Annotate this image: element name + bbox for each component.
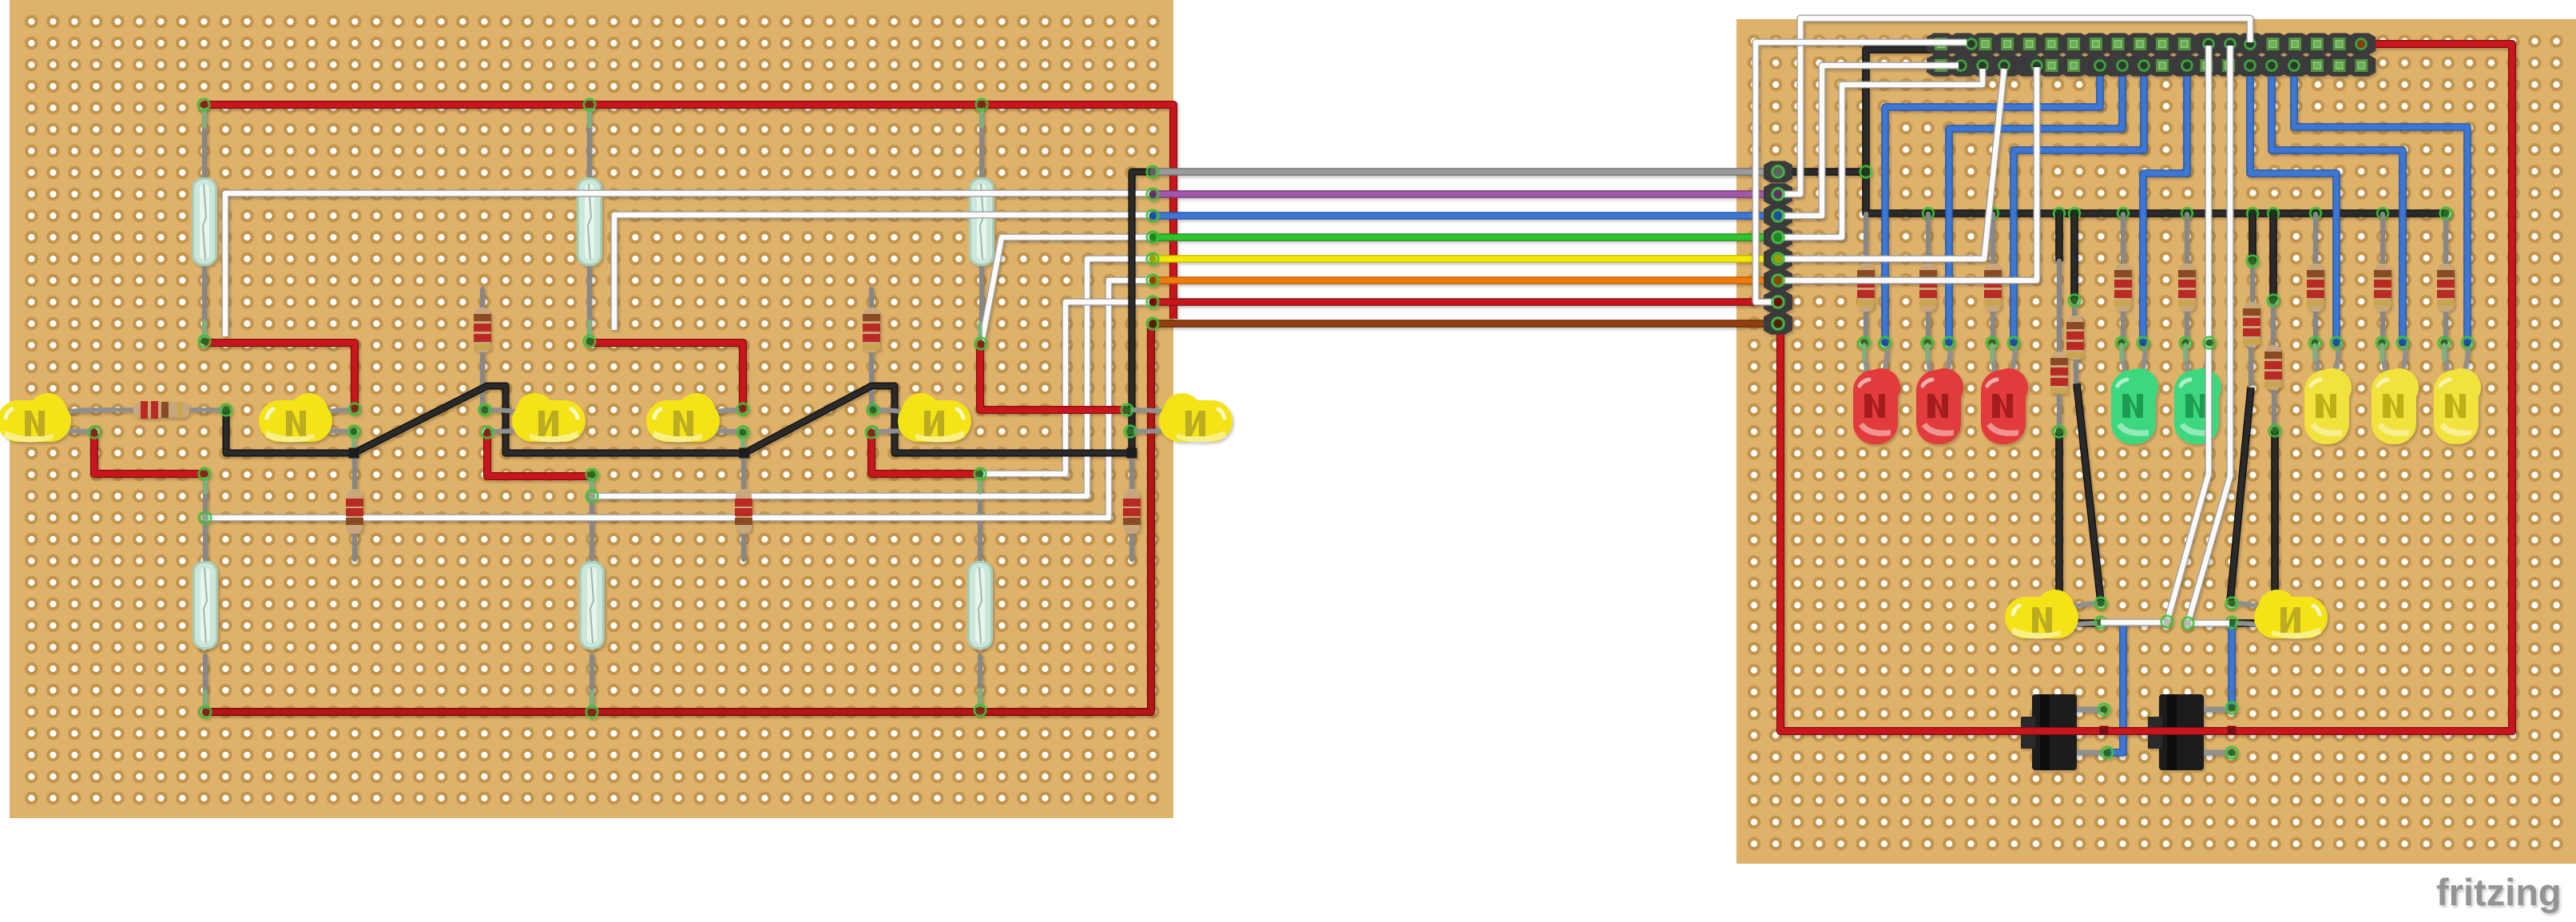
node ribbon gray left [1147,166,1158,177]
green stub LED col 2334 [1862,345,1867,360]
LED green 2 [2174,344,2221,444]
node LED yel3R [2462,337,2473,348]
pin J2 top 1 [1935,38,1947,50]
wire white green-pin [1781,69,1983,237]
pin J2 bottom used at 2550 [2032,61,2042,71]
node LED red1R [1879,337,1891,348]
node LED red1L [1859,337,1870,348]
LED D2 [259,393,354,443]
node red wire at header pin [2357,40,2365,48]
pin J2 top 12 [2178,38,2191,50]
node jumper4 low [2269,425,2280,436]
LED yellow 2 [2372,344,2419,444]
node rail S2 [584,99,595,110]
pin J2 bottom used at 2455 [1956,61,1967,71]
node side1 bottom [2095,617,2106,628]
wire ribbon brown [1153,320,1778,328]
green stub LED col 2494 [1990,345,1995,360]
resistor R4 [346,489,363,534]
green leg S6 [978,474,982,710]
wire black header link [1778,50,1953,172]
reed switch S5 [579,561,605,650]
pin J2 bottom 20 [2355,59,2368,72]
node side2 top [2226,598,2237,609]
wire red feed LED4 [589,343,743,407]
pin J2 bottom used at 2657 [2118,61,2128,71]
pin J1 purple [1772,189,1784,200]
node ribbon blue left [1147,210,1158,221]
pin J2 bottom 11 [2156,59,2169,72]
lead resistor R4 [352,454,357,559]
wire ribbon green [1153,233,1778,241]
pin J2 bottom used at 2817 [2245,61,2256,71]
wire red top rail [204,105,1173,319]
wire white D [592,259,1151,496]
resistor RR4 [2114,264,2132,312]
lead resistor RR5 [2185,214,2187,344]
pin J2 top 10 [2133,38,2146,50]
pin J2 bottom used at 2509 [1999,61,2010,71]
LED red 1 [1853,344,1900,444]
pin J2 bottom 18 [2311,59,2324,72]
node jumper4 mid [2268,295,2279,306]
resistor RR1 [1857,264,1875,312]
lead resistor RR2 [1927,214,1928,344]
resistor R6 [1123,489,1141,534]
wire black long 1 [2059,431,2098,623]
resistor R3 [863,308,880,352]
node LED yel2L [2376,337,2387,348]
LED red 3 [1981,344,2028,444]
node LED red3L [1987,337,1998,348]
pin J2 bottom 14 [2222,59,2235,72]
pin J2 bottom 6 [2046,59,2058,72]
green leg LED2 [351,431,356,453]
header J1 8-pin vertical [1764,161,1792,182]
pin J2 bottom used at 2738 [2182,61,2193,71]
wire ribbon gray [1153,168,1778,176]
node side2 bottom [2226,617,2237,628]
resistor RR7 [2374,264,2391,312]
wire blue 7 [2294,66,2467,344]
pin J2 bottom used at 2629 [2095,61,2106,71]
node S4 top [199,468,210,479]
wire white B [614,215,1151,330]
LED yellow side 1 [2005,590,2101,639]
LED D4 [646,393,743,443]
node white diag left cap [2161,616,2173,627]
node jumper2 mid [2069,295,2080,306]
junction black 1 [349,448,359,459]
node LED4 cathode [737,427,748,438]
pin J2 bottom 13 [2200,59,2213,72]
pin J2 top 4 [2001,38,2014,50]
wire black jumper 1 [2055,214,2063,261]
wire ribbon blue [1153,212,1778,220]
node LED grn1L [2116,337,2127,348]
header J2 2x20 [1927,33,1955,54]
node bus 2414 [1923,208,1934,219]
LED D3 [485,393,585,443]
pin J1 red [1772,296,1784,308]
right perfboard [1737,19,2576,864]
pin J2 top used at 2468 [1967,39,1977,50]
pin J1 gray [1772,166,1784,177]
green leg S2 top [587,107,592,341]
node LED red3R [2008,337,2019,348]
pin J2 top 19 [2333,38,2346,50]
resistor R1 [114,401,226,419]
green leg S3 top [980,107,982,344]
resistor R2 [474,308,491,352]
LED red 2 [1916,344,1963,444]
node LED2 cathode [348,426,359,437]
reed switch S6 [967,561,993,650]
reed switch S4 [193,561,218,650]
node Q2 bottom [2226,747,2237,758]
resistor RJ2 [2066,316,2084,360]
node bus 2899 [2310,208,2321,219]
node bus 2495 [1987,208,1998,219]
node bus 2846 [2268,208,2279,219]
wire blue 2 [1949,66,2122,342]
wire lead glass bottom 2 [589,474,594,712]
resistor RR3 [1984,264,2002,312]
node S5 top [586,469,597,480]
resistor RR2 [1919,264,1937,312]
LED green 1 [2111,344,2158,444]
pin J2 top 7 [2067,38,2080,50]
pin J2 top used at 2817 [2245,39,2256,50]
reed switch S2 [577,177,602,266]
lead resistor RR7 [2382,214,2383,344]
lead resistor R6 [1129,454,1134,559]
green leg S4 [203,474,208,712]
wire white purple-pin [1781,18,2250,194]
wire white seg bottom left [2101,618,2166,626]
wire black jumper 3 [2249,214,2256,261]
wire white yellow-pin [1782,69,2004,259]
wire lead glass top 3 [979,107,984,340]
node LED6 anode [1121,404,1133,415]
resistor RR8 [2437,264,2455,312]
svg-text:fritzing: fritzing [2436,871,2562,913]
wire black jumper 4 [2269,214,2277,300]
lead resistor R5 [741,454,746,559]
junction black 2 [740,448,750,459]
junction black 3 [1127,448,1137,459]
green leg S5 [589,476,594,712]
node R1 right [220,404,232,415]
node black bus corner [1860,166,1871,177]
wire blue 5 [2250,66,2336,344]
node ribbon red left [1147,296,1158,308]
node bus end [2440,208,2451,219]
wire red bottom rail [205,325,1151,712]
wire red LED3 to S5 [487,433,589,476]
lead jumper 2 [2074,300,2076,382]
wire red rail over transistors [1981,727,2316,735]
green stub LED col 2982 [2380,345,2384,360]
node rail bottom 2 [586,706,597,717]
LED yellow 3 [2434,344,2481,444]
pin J1 yellow [1772,253,1784,264]
wire lead glass top 1 [202,107,207,340]
node LED yel3L [2439,337,2450,348]
node S1 bottom [199,336,210,347]
pin J2 top 11 [2156,38,2169,50]
lead resistor RR4 [2122,214,2123,344]
wire white F [982,302,1151,474]
wire ribbon yellow [1153,255,1778,263]
node LED1 cathode [89,427,100,438]
green stub LED col 2736 [2183,345,2188,360]
pin J2 bottom used at 2844 [2267,61,2277,71]
pin J2 bottom 19 [2333,59,2346,72]
node rail bottom 1 [200,706,211,717]
wire white long left [2167,46,2209,622]
node LED grn2L [2180,337,2191,348]
node ribbon green left [1147,232,1158,243]
LED yellow side 2 [2232,590,2328,639]
green leg S1 top [202,107,207,341]
wire blue trans1 [2107,622,2123,753]
pin J2 top 3 [1979,38,1991,50]
resistor RJ4 [2264,345,2282,390]
node bus 2597 [2069,208,2080,219]
node S4 white [200,512,211,523]
node rail S3 [976,99,987,110]
wire lead glass bottom 3 [978,474,982,712]
node LED2 anode [349,403,360,415]
lead resistor RR6 [2315,214,2316,344]
wire lead glass bottom 1 [203,474,208,712]
node bus 2578 [2054,208,2065,219]
pin J2 bottom 1 [1935,59,1947,72]
pin J1 blue [1772,210,1784,221]
node LED6 cathode [1125,426,1136,437]
green stub LED col 2656 [2119,345,2124,360]
wire white A [225,193,1151,336]
resistor RJ3 [2243,302,2260,347]
node ribbon yellow left [1147,253,1158,264]
node LED3 cathode [482,427,493,438]
node LED red2L [1922,337,1933,348]
wire white long right [2188,46,2230,623]
lead jumper 3 [2251,261,2253,384]
pin J2 top used at 2765 [2204,39,2214,50]
resistor R5 [735,489,752,534]
wire blue 1 [1885,66,2100,342]
pin J2 top 6 [2046,38,2058,50]
reed switch S3 [969,177,994,266]
node bus 2983 [2377,208,2388,219]
green stub LED col 2413 [1925,345,1930,360]
node LED yel1L [2309,337,2320,348]
wire white red-pin [1756,42,1967,302]
LED D6 [1127,393,1232,443]
wire blue 6 [2272,66,2403,344]
lead resistor RR8 [2444,214,2446,344]
node Q1 top [2098,704,2110,715]
pin J1 brown [1772,318,1784,329]
node green LED2 right [2204,337,2215,348]
green stub LED col 2898 [2312,345,2317,360]
pin J2 top 18 [2311,38,2324,50]
green stub LED col 3060 [2442,345,2447,360]
wire red LED1 to S4 [94,434,202,474]
lead resistor R2 [480,289,485,410]
resistor RR5 [2178,264,2196,312]
wire red feed LED6 [980,345,1126,410]
LED yellow 1 [2304,344,2352,444]
pin J2 bottom used at 2872 [2289,61,2300,71]
lead resistor RR1 [1864,214,1866,344]
pin J1 orange [1772,275,1784,286]
pin J1 green [1772,232,1784,243]
node bus 2658 [2118,208,2129,219]
node bus 2820 [2247,208,2258,219]
pin J2 bottom 7 [2067,59,2080,72]
wire ribbon purple [1153,190,1778,198]
wire white seg bottom right [2188,619,2229,626]
node bus 2738 [2181,208,2193,219]
wire black long 2 [2233,431,2275,623]
node LED3 anode [479,404,490,415]
node S3 bottom [975,338,986,349]
resistor RR6 [2307,264,2324,312]
pin J2 top used at 2792 [2225,39,2236,50]
wire black zigzag [226,172,1151,453]
lead resistor R3 [869,289,874,410]
node jumper3 mid [2247,256,2258,267]
green leg LED4 [740,431,745,453]
node rail bottom 3 [974,705,986,716]
wire lead glass top 2 [587,107,592,340]
pin J2 bottom used at 2482 [1978,61,1988,71]
node white diag right cap [2182,618,2193,629]
node LED grn1R [2137,337,2149,348]
pin J2 top 17 [2288,38,2301,50]
LED D5 [871,393,971,443]
node jumper1 low [2054,426,2065,437]
resistor RJ1 [2050,352,2068,394]
pin J2 bottom used at 2684 [2139,61,2149,71]
node ribbon purple left [1147,189,1158,200]
transistor Q1 [2021,694,2104,770]
node LED5 anode [867,404,879,415]
node S6 top [974,468,986,479]
lead jumper 1 [2057,261,2062,430]
wire ribbon orange [1153,276,1778,284]
pin J2 top 9 [2112,38,2125,50]
wire white E [205,280,1151,518]
node Q2 top [2226,702,2237,713]
wire black diag 1 [2077,384,2101,602]
wire black diag 2 [2230,387,2251,601]
pin J2 top 8 [2090,38,2102,50]
wire blue 4 [2143,66,2187,342]
wire red feed LED2 [204,343,355,407]
lead jumper 4 [2273,300,2274,427]
reed switch S1 [192,177,217,266]
junction Q2 mid [2228,726,2237,735]
node LED red2R [1943,337,1955,348]
node LED yel1R [2331,337,2342,348]
pin J2 top 16 [2267,38,2280,50]
wire white C [982,237,1151,342]
wire blue trans2 [2228,625,2236,708]
LED D1 [0,393,114,443]
node S2 bottom [584,336,595,347]
node LED yel2R [2397,337,2408,348]
pin J2 top 5 [2023,38,2036,50]
wire blue 3 [2014,66,2144,342]
node rail S1 [198,99,209,110]
wire black bus [1866,172,2446,213]
wire red LED5 to S6 [871,433,977,474]
wire ribbon red [1153,298,1778,306]
wire white blue-pin [1781,66,1959,216]
green leg LED6 [1128,431,1133,453]
node S5 white [586,491,597,502]
wire red loop [1780,44,2512,731]
transistor Q2 [2148,694,2231,770]
wire white orange-pin [1782,67,2037,280]
node ribbon orange left [1147,275,1158,286]
lead resistor RR3 [1992,214,1993,344]
node LED5 cathode [866,427,877,438]
junction Q1 mid [2100,726,2109,735]
node Q1 bottom [2102,747,2113,758]
green leg LED1 [80,407,112,412]
wire black jumper 2 [2070,214,2078,300]
left perfboard [10,0,1173,818]
node LED4 anode [737,403,748,415]
node side1 top [2095,598,2106,609]
node ribbon brown left [1147,318,1158,329]
pin J2 top used at 2956 [2356,39,2367,50]
